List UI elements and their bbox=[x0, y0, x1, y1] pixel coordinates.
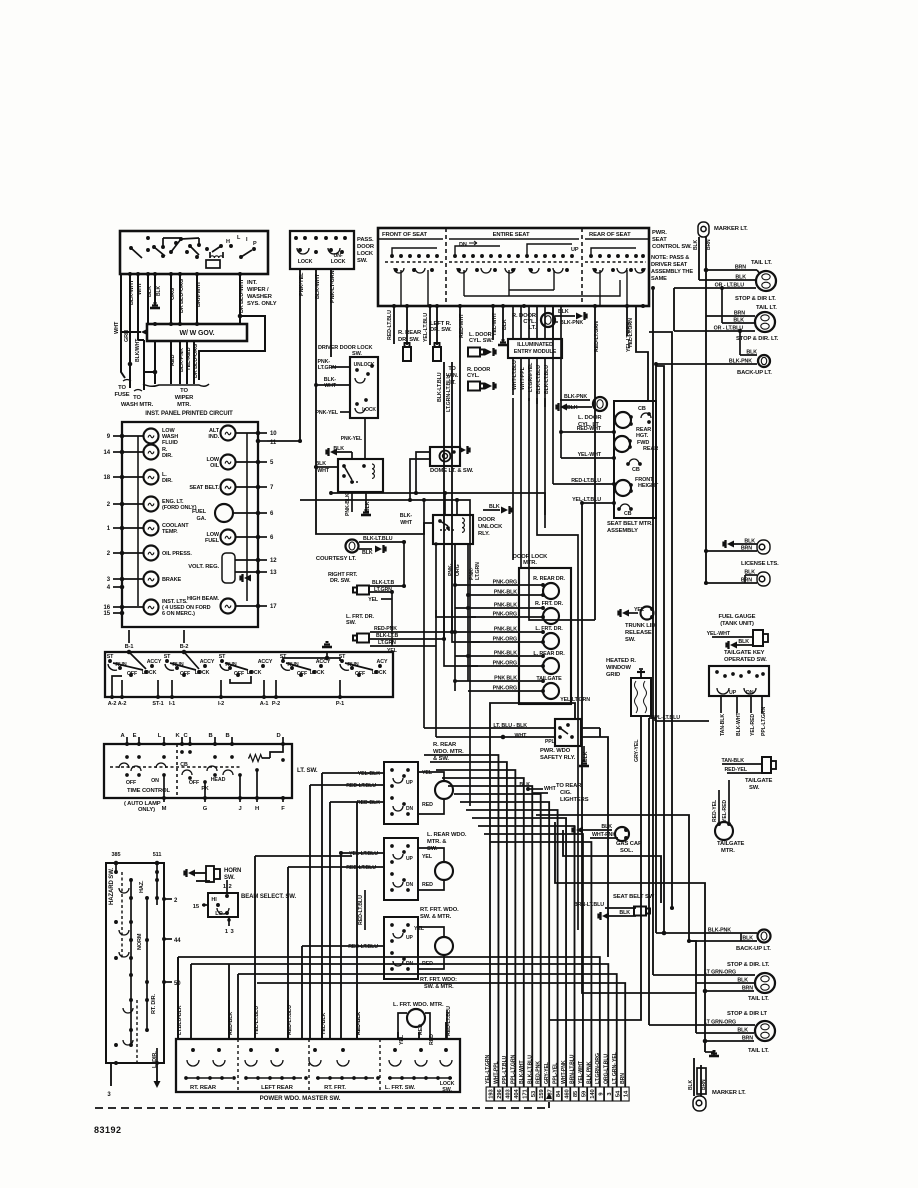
ignition group 2 bbox=[165, 659, 169, 663]
lt sw interior bbox=[110, 766, 240, 768]
seat box bottom pin dots bbox=[392, 304, 396, 308]
gauge lamp R. bbox=[144, 445, 159, 460]
svg-text:BLK: BLK bbox=[738, 639, 749, 645]
ignition switch box bbox=[105, 652, 393, 697]
wire RED-WHT bbox=[459, 306, 461, 447]
right trunk x672 bbox=[649, 332, 672, 908]
heated grid wire corner bbox=[549, 716, 641, 1020]
coil in switch bbox=[210, 256, 223, 258]
mid horizontal y856 bbox=[563, 830, 661, 903]
wire BLK-WHT to wash bbox=[143, 340, 145, 390]
svg-text:LOCK: LOCK bbox=[298, 259, 313, 265]
master sw input wires bbox=[177, 1000, 179, 1039]
relay bottom wires bbox=[351, 492, 353, 512]
svg-text:L. FRT. SW.: L. FRT. SW. bbox=[385, 1085, 416, 1091]
svg-text:GAS CAP: GAS CAP bbox=[616, 841, 642, 847]
svg-text:TAILGATE: TAILGATE bbox=[745, 778, 773, 784]
svg-text:15: 15 bbox=[104, 611, 111, 617]
gauge lamp ENG. LT. bbox=[144, 497, 159, 512]
svg-text:LOCK: LOCK bbox=[331, 259, 346, 265]
module feed drops bbox=[512, 306, 514, 339]
svg-text:YEL: YEL bbox=[414, 926, 425, 932]
master sw wire to pin17 bbox=[257, 983, 625, 1087]
gauge lamp COOLANT bbox=[144, 521, 159, 536]
svg-text:TAN-BLK: TAN-BLK bbox=[722, 758, 745, 764]
svg-text:BLK: BLK bbox=[502, 319, 508, 330]
svg-text:RED: RED bbox=[422, 882, 433, 888]
svg-text:STOP & DIR. LT.: STOP & DIR. LT. bbox=[736, 336, 779, 342]
svg-text:2: 2 bbox=[229, 884, 232, 890]
svg-text:YEL-LT.GRN: YEL-LT.GRN bbox=[628, 318, 634, 348]
svg-text:DR. SW.: DR. SW. bbox=[330, 578, 351, 584]
svg-text:44: 44 bbox=[174, 938, 181, 944]
svg-text:TO: TO bbox=[133, 395, 141, 401]
connector pin 296 bbox=[495, 1087, 503, 1101]
svg-text:BLK-LT.BLU: BLK-LT.BLU bbox=[363, 536, 393, 542]
svg-text:IND.: IND. bbox=[208, 434, 219, 440]
tailgate sw wires bbox=[720, 696, 722, 713]
hazard switch box bbox=[106, 863, 164, 1063]
courtesy lt bbox=[346, 540, 359, 553]
svg-text:TAN-BLK: TAN-BLK bbox=[720, 714, 726, 736]
hazard taps bbox=[164, 898, 172, 900]
svg-text:ILLUMINATED: ILLUMINATED bbox=[517, 342, 553, 348]
svg-text:WIPER /: WIPER / bbox=[247, 287, 269, 293]
connector pin 403 bbox=[503, 1087, 511, 1101]
wire BLK-LT.BLU bbox=[443, 362, 445, 639]
svg-text:H: H bbox=[255, 806, 259, 812]
svg-text:I-1: I-1 bbox=[169, 701, 175, 707]
svg-text:ST: ST bbox=[107, 654, 114, 660]
svg-text:BACK-UP LT.: BACK-UP LT. bbox=[736, 946, 771, 952]
svg-text:PNK-LT-GRN: PNK-LT-GRN bbox=[330, 270, 336, 303]
svg-text:LT.GRN: LT.GRN bbox=[378, 640, 396, 646]
svg-text:PPL: PPL bbox=[545, 739, 554, 745]
svg-text:BLK-: BLK- bbox=[400, 513, 413, 519]
svg-text:CB: CB bbox=[632, 467, 640, 473]
svg-text:BLK-LT.B: BLK-LT.B bbox=[372, 580, 395, 586]
svg-text:ACCY: ACCY bbox=[147, 659, 162, 665]
svg-text:RED-LT.BLU: RED-LT.BLU bbox=[346, 865, 376, 871]
trunk red-lt-grn extension bbox=[594, 580, 596, 620]
svg-text:404: 404 bbox=[514, 1088, 520, 1098]
svg-text:FUEL GAUGE: FUEL GAUGE bbox=[719, 614, 756, 620]
svg-text:YEL-LT.BLU: YEL-LT.BLU bbox=[423, 313, 429, 342]
svg-text:CB: CB bbox=[638, 406, 646, 412]
svg-text:BRN: BRN bbox=[701, 1079, 707, 1090]
dashed divider bbox=[176, 744, 178, 798]
svg-text:HEATED R.: HEATED R. bbox=[606, 658, 636, 664]
lt sw bottom pin H bbox=[255, 796, 259, 800]
gov right branch bbox=[199, 316, 265, 380]
master sw wire to pin15 bbox=[191, 964, 608, 1087]
svg-text:GRY-YEL: GRY-YEL bbox=[634, 739, 640, 762]
svg-text:BLK: BLK bbox=[362, 550, 373, 556]
svg-text:NOTE: PASS &: NOTE: PASS & bbox=[651, 255, 689, 261]
right trunk x664 bbox=[656, 366, 664, 933]
svg-text:FUSE: FUSE bbox=[114, 392, 129, 398]
connector pin 460 bbox=[562, 1087, 570, 1101]
svg-text:LT.GRN: LT.GRN bbox=[318, 365, 336, 371]
svg-text:P-2: P-2 bbox=[272, 701, 280, 707]
svg-text:OFF: OFF bbox=[180, 671, 191, 677]
svg-text:LOCK: LOCK bbox=[142, 670, 157, 676]
svg-text:CB: CB bbox=[624, 511, 632, 517]
wire PNK-YEL bbox=[267, 269, 300, 441]
rear hgt motor bbox=[615, 412, 631, 428]
svg-text:MARKER LT.: MARKER LT. bbox=[714, 226, 748, 232]
svg-text:BLK: BLK bbox=[567, 405, 578, 411]
svg-text:GA.: GA. bbox=[197, 516, 207, 522]
svg-text:BLK: BLK bbox=[601, 824, 612, 830]
svg-text:YEL: YEL bbox=[422, 854, 433, 860]
svg-text:17: 17 bbox=[270, 604, 277, 610]
svg-text:W/ W GOV.: W/ W GOV. bbox=[179, 330, 214, 337]
svg-text:B: B bbox=[225, 733, 229, 739]
svg-text:SW.: SW. bbox=[442, 1087, 452, 1093]
svg-text:SOL.: SOL. bbox=[620, 848, 634, 854]
svg-text:CIG.: CIG. bbox=[560, 790, 572, 796]
svg-text:RT. FRT. WDO.: RT. FRT. WDO. bbox=[420, 907, 459, 913]
svg-text:WHT: WHT bbox=[137, 282, 143, 295]
svg-text:TRUNK LID: TRUNK LID bbox=[625, 623, 655, 629]
svg-text:SW.: SW. bbox=[625, 637, 636, 643]
svg-text:BLK: BLK bbox=[688, 1080, 694, 1090]
svg-text:MARKER LT.: MARKER LT. bbox=[712, 1090, 746, 1096]
svg-text:HAZ.: HAZ. bbox=[139, 880, 145, 893]
svg-text:DOOR: DOOR bbox=[357, 244, 375, 250]
svg-text:A-1: A-1 bbox=[260, 701, 269, 707]
svg-text:DIR.: DIR. bbox=[162, 453, 173, 459]
gauge lamp HIGH BEAM bbox=[221, 599, 236, 614]
svg-text:COURTESY LT.: COURTESY LT. bbox=[316, 556, 357, 562]
VOLT REG bbox=[222, 553, 235, 583]
svg-text:RED-WHT: RED-WHT bbox=[459, 313, 465, 338]
gauge lamp INST. LTS. bbox=[144, 600, 159, 615]
master sw contacts bbox=[187, 1060, 199, 1066]
svg-text:ORG: ORG bbox=[455, 564, 461, 576]
connector pin 3 bbox=[604, 1087, 612, 1101]
svg-text:ACCY: ACCY bbox=[316, 659, 331, 665]
svg-text:L: L bbox=[158, 733, 162, 739]
svg-text:PASS.: PASS. bbox=[357, 237, 374, 243]
svg-text:YEL-LT.BLU: YEL-LT.BLU bbox=[349, 851, 378, 857]
svg-text:BLK-LT.BLU: BLK-LT.BLU bbox=[437, 372, 443, 402]
g4 wire bbox=[283, 658, 340, 661]
svg-text:LOCK: LOCK bbox=[357, 251, 374, 257]
wire PNK-LT-GRN bbox=[330, 269, 332, 357]
svg-text:RLY.: RLY. bbox=[478, 531, 490, 537]
window switch feed verticals bbox=[309, 785, 311, 1039]
svg-text:DK BLU-ORG: DK BLU-ORG bbox=[179, 279, 185, 313]
front height motor bbox=[615, 480, 631, 496]
svg-text:G: G bbox=[203, 806, 208, 812]
svg-text:BLK: BLK bbox=[156, 286, 162, 296]
marker wires bbox=[698, 237, 700, 280]
svg-text:WHT-LT.BLU: WHT-LT.BLU bbox=[512, 360, 518, 390]
bundle wire pin9 bbox=[466, 810, 558, 1087]
right trunk x649 bbox=[648, 718, 650, 1025]
B-2 lever bbox=[184, 652, 199, 669]
svg-text:PPL-LT.GRN: PPL-LT.GRN bbox=[761, 706, 767, 736]
bundle wire pin6 bbox=[448, 786, 532, 1087]
svg-text:PNK-YEL: PNK-YEL bbox=[315, 410, 338, 416]
svg-text:R. REAR: R. REAR bbox=[398, 330, 422, 336]
feed verticals bbox=[560, 306, 562, 458]
svg-text:RT. REAR: RT. REAR bbox=[190, 1085, 217, 1091]
svg-text:L. DOOR: L. DOOR bbox=[578, 415, 602, 421]
wire DK BLU-ORG bbox=[179, 274, 181, 324]
svg-text:ASSEMBLY: ASSEMBLY bbox=[607, 528, 638, 534]
door lock relay box bbox=[338, 459, 383, 492]
svg-text:18: 18 bbox=[104, 475, 111, 481]
gas cap sol bbox=[576, 827, 583, 834]
svg-text:LEFT REAR: LEFT REAR bbox=[261, 1085, 294, 1091]
right trunk x653 bbox=[652, 288, 654, 975]
cb 2 bbox=[629, 459, 639, 464]
hazard bottom wires bbox=[110, 1063, 112, 1086]
svg-text:BRN-WHT: BRN-WHT bbox=[196, 281, 202, 307]
svg-text:DIR.: DIR. bbox=[162, 478, 173, 484]
right trunk x656 bbox=[655, 364, 657, 933]
pwr wdo safety relay box bbox=[555, 719, 581, 746]
feed RED-LT.BLU frt bbox=[301, 946, 303, 1039]
illuminated entry module bbox=[508, 339, 562, 358]
svg-text:POWER WDO. MASTER SW.: POWER WDO. MASTER SW. bbox=[260, 1095, 341, 1102]
svg-text:WHT: WHT bbox=[114, 321, 120, 334]
svg-text:HEAD: HEAD bbox=[211, 777, 226, 783]
svg-text:UP: UP bbox=[729, 690, 737, 696]
svg-text:YEL-WHT: YEL-WHT bbox=[578, 452, 602, 458]
door unlock relay bbox=[433, 515, 473, 544]
svg-text:YEL-LT.GRN: YEL-LT.GRN bbox=[560, 697, 590, 703]
lock motor L. FRT. DR. bbox=[543, 633, 559, 649]
svg-text:L. FRT. DR.: L. FRT. DR. bbox=[535, 626, 563, 632]
svg-text:WHT: WHT bbox=[324, 383, 337, 389]
svg-text:403: 403 bbox=[505, 1088, 511, 1098]
svg-text:SAME: SAME bbox=[651, 276, 667, 282]
interior bus right bbox=[246, 433, 248, 601]
svg-text:BLK: BLK bbox=[519, 782, 530, 788]
svg-text:BACK-UP LT.: BACK-UP LT. bbox=[737, 370, 772, 376]
svg-text:R. REAR: R. REAR bbox=[433, 742, 457, 748]
wire RED-LT.GRN bbox=[594, 306, 596, 580]
left mid horizontals bbox=[331, 493, 545, 515]
svg-text:171: 171 bbox=[522, 1088, 528, 1098]
svg-text:84: 84 bbox=[556, 1090, 562, 1097]
svg-text:YEL-WHT: YEL-WHT bbox=[492, 312, 498, 336]
svg-text:BLK-WHT: BLK-WHT bbox=[736, 712, 742, 736]
svg-text:BLK-LT.B: BLK-LT.B bbox=[376, 633, 399, 639]
wire BRN-WHT bbox=[196, 274, 198, 324]
svg-text:54: 54 bbox=[615, 1090, 621, 1097]
fwd rear motor bbox=[614, 436, 630, 452]
svg-text:UP: UP bbox=[406, 856, 414, 862]
svg-text:M: M bbox=[162, 806, 167, 812]
svg-text:OFF: OFF bbox=[355, 671, 366, 677]
interior bus left bbox=[137, 436, 139, 606]
svg-text:SW.: SW. bbox=[357, 258, 368, 264]
power window master switch box bbox=[176, 1039, 460, 1092]
svg-text:LIGHTERS: LIGHTERS bbox=[560, 797, 589, 803]
svg-text:DN: DN bbox=[746, 690, 754, 696]
feed YEL-BLK bbox=[321, 773, 323, 1039]
svg-text:RED-YEL: RED-YEL bbox=[724, 767, 747, 773]
wire LT.GRN-LT.BLU bbox=[451, 362, 453, 632]
svg-text:PNK-BLK: PNK-BLK bbox=[345, 493, 351, 516]
bundle wire pin4 bbox=[436, 770, 515, 1087]
svg-text:ENTIRE SEAT: ENTIRE SEAT bbox=[493, 232, 530, 238]
tailgate window switch bbox=[709, 666, 769, 696]
svg-text:59: 59 bbox=[581, 1090, 587, 1097]
wire top junction dots bbox=[128, 272, 132, 276]
bundle wire pin2 bbox=[424, 755, 498, 1087]
svg-text:WHT: WHT bbox=[400, 520, 413, 526]
svg-text:WASH MTR.: WASH MTR. bbox=[121, 402, 154, 408]
svg-text:BLK: BLK bbox=[619, 910, 630, 916]
wire yel-lt-grn pin1 bbox=[490, 703, 575, 1087]
beam select switch bbox=[208, 893, 238, 917]
svg-text:MTR. &: MTR. & bbox=[427, 839, 446, 845]
feed YEL-LT.BLU bbox=[254, 856, 256, 1039]
svg-text:OFF: OFF bbox=[234, 671, 245, 677]
svg-text:WHT: WHT bbox=[317, 468, 330, 474]
svg-text:HIGH BEAM.: HIGH BEAM. bbox=[187, 596, 220, 602]
svg-text:VAN.: VAN. bbox=[446, 373, 459, 379]
svg-text:A-2: A-2 bbox=[108, 701, 117, 707]
svg-text:L. REAR WDO.: L. REAR WDO. bbox=[427, 832, 467, 838]
svg-text:YEL-RED: YEL-RED bbox=[186, 347, 192, 371]
svg-text:ASSEMBLY THE: ASSEMBLY THE bbox=[651, 269, 693, 275]
RT FRT WDO SW and MTR bbox=[384, 917, 418, 979]
svg-text:14: 14 bbox=[624, 1090, 630, 1097]
ignition group 4 bbox=[281, 659, 285, 663]
svg-text:OFF: OFF bbox=[127, 671, 138, 677]
svg-text:OFF: OFF bbox=[297, 671, 308, 677]
svg-text:SAFETY RLY.: SAFETY RLY. bbox=[540, 755, 576, 761]
svg-text:BLK/WHT: BLK/WHT bbox=[135, 338, 141, 362]
svg-text:RED: RED bbox=[170, 355, 176, 366]
lock motor TAILGATE bbox=[543, 683, 559, 699]
svg-text:E: E bbox=[133, 733, 137, 739]
FUEL GA bbox=[215, 504, 233, 522]
right trunk x705 bbox=[555, 822, 705, 991]
master sw wire to pin16 bbox=[238, 974, 617, 1087]
power seat control box bbox=[378, 228, 649, 306]
svg-text:SW. & MTR.: SW. & MTR. bbox=[420, 914, 452, 920]
ground on ignition bbox=[322, 646, 332, 649]
svg-text:GRID: GRID bbox=[606, 672, 620, 678]
svg-text:LT. SW.: LT. SW. bbox=[297, 767, 318, 774]
bundle wire pin10 bbox=[472, 818, 566, 1087]
svg-text:P-1: P-1 bbox=[336, 701, 344, 707]
svg-text:HAZARD SW.: HAZARD SW. bbox=[109, 868, 115, 905]
svg-text:REAR OF SEAT: REAR OF SEAT bbox=[589, 232, 631, 238]
svg-text:LT.GRN: LT.GRN bbox=[475, 562, 481, 580]
svg-text:DRIVER SEAT: DRIVER SEAT bbox=[651, 262, 688, 268]
seat box dividers bbox=[445, 228, 447, 306]
svg-text:BLK-PNK: BLK-PNK bbox=[179, 348, 185, 372]
connector pin 171 bbox=[520, 1087, 528, 1101]
gauge lamp LOW bbox=[144, 429, 159, 444]
wire BLK gnd bbox=[502, 306, 504, 342]
gauge lamp right ALT bbox=[221, 426, 236, 441]
switch contacts bbox=[129, 246, 133, 250]
gauge lamp BRAKE bbox=[144, 572, 159, 587]
dashed cut line bbox=[95, 1107, 549, 1109]
svg-text:(TANK UNIT): (TANK UNIT) bbox=[720, 621, 754, 627]
svg-text:DR. SW.: DR. SW. bbox=[430, 327, 452, 333]
svg-text:RT. FRT.: RT. FRT. bbox=[324, 1085, 346, 1091]
svg-text:RED-PNK: RED-PNK bbox=[374, 626, 397, 632]
svg-text:296: 296 bbox=[497, 1088, 503, 1098]
svg-text:RED-WHT: RED-WHT bbox=[577, 426, 602, 432]
wire DK BLU-WHT bbox=[239, 274, 241, 324]
connector pin 14 bbox=[621, 1087, 629, 1101]
svg-text:CYL.: CYL. bbox=[467, 373, 480, 379]
connector pin 9 bbox=[596, 1087, 604, 1101]
svg-text:83192: 83192 bbox=[94, 1125, 122, 1135]
cb 3 bbox=[620, 504, 630, 509]
svg-text:ACY: ACY bbox=[377, 659, 388, 665]
svg-text:BLK: BLK bbox=[744, 539, 755, 545]
safety rly wires bbox=[424, 727, 555, 729]
gauge lamp right SEAT BELT. bbox=[221, 480, 236, 495]
svg-text:ST: ST bbox=[219, 654, 226, 660]
svg-text:BLK-LT.BLU: BLK-LT.BLU bbox=[544, 365, 550, 394]
svg-text:6 ON MERC.): 6 ON MERC.) bbox=[162, 611, 195, 617]
svg-text:UP: UP bbox=[406, 780, 414, 786]
svg-text:ACCY: ACCY bbox=[200, 659, 215, 665]
svg-text:SEAT: SEAT bbox=[652, 237, 667, 243]
svg-text:460: 460 bbox=[565, 1089, 571, 1098]
svg-text:SW.: SW. bbox=[346, 620, 356, 626]
svg-text:BLK-WHT: BLK-WHT bbox=[129, 279, 135, 305]
svg-text:BLK-PNK: BLK-PNK bbox=[564, 394, 587, 400]
svg-text:12: 12 bbox=[270, 558, 277, 564]
svg-text:HI: HI bbox=[211, 897, 217, 903]
wire break marks bbox=[123, 380, 131, 382]
svg-text:MTR.: MTR. bbox=[177, 402, 191, 408]
pass door lock switch box bbox=[290, 231, 354, 269]
svg-text:SYS. ONLY: SYS. ONLY bbox=[247, 301, 277, 307]
svg-text:BLK: BLK bbox=[558, 309, 569, 315]
svg-text:YEL-RED: YEL-RED bbox=[750, 714, 756, 736]
lt sw bottom pin M bbox=[162, 796, 166, 800]
lock mtr left bus bbox=[454, 560, 456, 691]
svg-text:CB: CB bbox=[180, 762, 188, 768]
svg-text:RED-BLK: RED-BLK bbox=[357, 800, 380, 806]
svg-text:RT. DIR.: RT. DIR. bbox=[151, 993, 157, 1014]
svg-text:BLK-PNK: BLK-PNK bbox=[560, 320, 583, 326]
svg-text:P: P bbox=[253, 241, 257, 247]
svg-text:OIL: OIL bbox=[210, 463, 220, 469]
svg-text:ENTRY MODULE: ENTRY MODULE bbox=[514, 349, 557, 355]
svg-text:YEL: YEL bbox=[387, 648, 398, 654]
safety rly gnd bbox=[583, 746, 585, 762]
horn switch bbox=[188, 870, 195, 877]
heated window grid bbox=[631, 678, 651, 716]
svg-text:FUEL: FUEL bbox=[205, 538, 220, 544]
svg-text:OPERATED SW.: OPERATED SW. bbox=[724, 657, 767, 663]
svg-text:LOCK: LOCK bbox=[195, 670, 210, 676]
gauge lamp right LOW bbox=[221, 455, 236, 470]
svg-text:I-2: I-2 bbox=[218, 701, 224, 707]
connector pin 140 bbox=[588, 1087, 596, 1101]
connector pin 404 bbox=[511, 1087, 519, 1101]
svg-text:RED-LT.BLU: RED-LT.BLU bbox=[358, 895, 364, 925]
stop lt grounds bbox=[689, 941, 696, 1033]
